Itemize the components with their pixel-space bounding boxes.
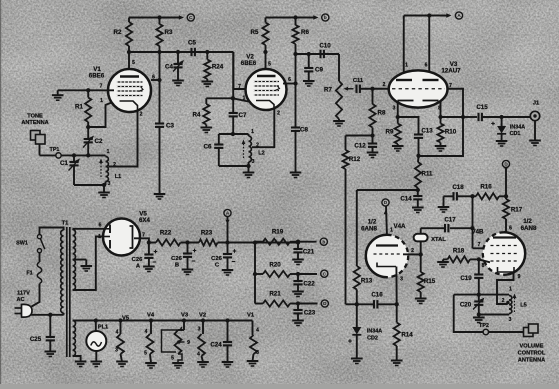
wire fuse to plug	[32, 284, 40, 307]
wire R8 to R12	[346, 135, 373, 137]
wire V3 pin6	[428, 16, 430, 81]
wire to terminal d	[298, 303, 318, 305]
wire antenna to TP1	[39, 144, 41, 155]
svg-text:3: 3	[198, 327, 201, 333]
resistor R9	[395, 124, 401, 145]
wire V1 pin6 bus	[151, 79, 160, 81]
heater bus y320	[73, 320, 253, 322]
capacitor C21	[297, 242, 299, 249]
capacitor C25	[49, 315, 51, 337]
ground R9	[392, 145, 404, 147]
svg-text:3: 3	[393, 106, 396, 112]
svg-text:C22: C22	[303, 281, 315, 288]
ground CD2	[351, 358, 363, 360]
terminal d	[321, 300, 328, 307]
capacitor C9	[308, 54, 310, 68]
terminal C arrowhead	[179, 15, 184, 19]
wire L1 bottom	[74, 184, 104, 186]
capacitor C11	[355, 85, 357, 93]
terminal D mid	[382, 199, 389, 206]
svg-text:R22: R22	[160, 230, 172, 237]
wire HV bottom to V5 pin1	[73, 237, 104, 291]
ground C3	[154, 193, 166, 195]
svg-text:1: 1	[100, 98, 103, 104]
svg-text:6: 6	[288, 77, 291, 83]
tube V5 6X4	[103, 219, 140, 256]
svg-text:C20: C20	[460, 302, 472, 309]
terminal c	[321, 270, 328, 277]
svg-text:C3: C3	[166, 123, 174, 130]
wire C17 line	[421, 227, 445, 229]
svg-text:1: 1	[107, 149, 110, 155]
svg-text:ANTENNA: ANTENNA	[21, 120, 48, 126]
resistor R11	[417, 156, 420, 162]
svg-text:R19: R19	[272, 229, 284, 236]
wire pin3 to C13	[398, 117, 419, 135]
svg-text:R7: R7	[324, 87, 332, 94]
svg-text:C7: C7	[239, 112, 247, 119]
ground L2	[248, 166, 250, 173]
svg-text:1/2: 1/2	[523, 218, 532, 225]
resistor R14	[396, 304, 398, 322]
capacitor C22	[297, 274, 299, 281]
svg-text:b: b	[322, 239, 325, 244]
capacitor C24	[227, 321, 229, 343]
svg-text:C18: C18	[452, 184, 464, 191]
svg-text:3: 3	[400, 277, 403, 283]
wire to TP2	[454, 295, 483, 332]
wire L5 bottom	[479, 314, 509, 316]
capacitor C13	[414, 133, 423, 135]
ground heater V5	[116, 361, 128, 363]
svg-text:L5: L5	[520, 303, 527, 309]
svg-text:6: 6	[152, 75, 155, 81]
svg-text:7: 7	[238, 84, 241, 90]
ground V1 grid	[57, 90, 59, 95]
resistor R10	[437, 124, 443, 143]
wire HV center tap	[73, 259, 87, 261]
svg-text:R24: R24	[212, 64, 224, 71]
svg-text:IN34A: IN34A	[367, 329, 382, 335]
svg-text:6: 6	[425, 63, 428, 69]
svg-text:6AN8: 6AN8	[361, 226, 377, 233]
wire V4A pin2 to crystal node	[403, 253, 421, 255]
wire volume pickup y294	[454, 294, 509, 296]
wire V3 pin3	[397, 101, 399, 117]
wire HV top to V5 pin6	[72, 228, 74, 231]
svg-text:3: 3	[115, 348, 118, 354]
volume control antenna connector	[524, 328, 534, 337]
svg-text:R1: R1	[75, 104, 83, 111]
svg-text:R10: R10	[445, 129, 457, 136]
terminal D right	[502, 160, 509, 167]
svg-text:7: 7	[100, 84, 103, 90]
switch SW1	[37, 235, 41, 239]
svg-text:1: 1	[509, 287, 512, 293]
svg-text:V4: V4	[147, 313, 155, 319]
svg-text:TONE: TONE	[27, 114, 43, 120]
resistor R12	[345, 136, 347, 151]
capacitor C5	[190, 48, 192, 56]
resistor R15	[420, 255, 422, 273]
wire to V2 pin7	[233, 52, 245, 89]
svg-text:C11: C11	[353, 78, 364, 84]
diode IN34A CD2	[356, 304, 358, 327]
terminal A top	[455, 12, 462, 19]
svg-text:L1: L1	[115, 174, 122, 180]
ground CD1	[496, 140, 508, 142]
svg-text:5: 5	[132, 60, 135, 66]
wire V1 pin7	[58, 89, 114, 91]
capacitor C26A electrolytic	[148, 243, 150, 255]
svg-text:V4B: V4B	[471, 229, 484, 236]
capacitor C26C electrolytic	[227, 243, 229, 255]
svg-text:5: 5	[268, 62, 271, 68]
ground R14	[391, 360, 403, 362]
ground R24	[202, 81, 214, 83]
svg-text:R5: R5	[251, 29, 259, 36]
wire heater winding bottom	[73, 356, 81, 362]
ground center tap	[81, 265, 93, 267]
svg-text:C13: C13	[421, 128, 433, 135]
svg-text:4: 4	[180, 327, 183, 333]
svg-text:4: 4	[116, 330, 119, 336]
svg-text:1: 1	[251, 129, 254, 135]
R7 wiper arrow	[347, 88, 354, 90]
capacitor C15	[477, 113, 479, 121]
svg-text:VOLUME: VOLUME	[520, 344, 544, 350]
svg-text:R11: R11	[421, 171, 433, 178]
wire to terminal c	[298, 273, 317, 275]
wire supply column x255	[254, 243, 256, 304]
wire terminal D to V4A pin1	[386, 206, 387, 245]
capacitor C8	[291, 126, 300, 128]
tube V2 6BE6	[246, 69, 287, 110]
tube V1 6BE6	[108, 69, 151, 112]
svg-text:9: 9	[518, 274, 521, 280]
ground heater winding	[75, 361, 87, 363]
wire V2 grid3 vertical	[232, 52, 234, 113]
svg-text:R8: R8	[378, 110, 386, 117]
svg-text:7: 7	[142, 233, 145, 239]
test point TP2	[483, 329, 488, 334]
svg-text:6X4: 6X4	[139, 217, 151, 224]
resistor R6	[292, 25, 298, 44]
wire V3 pin8	[440, 101, 442, 117]
tube V4B half 6AN8	[483, 232, 525, 274]
capacitor C2 trimmer	[87, 127, 89, 139]
crystal XTAL	[414, 234, 428, 242]
capacitor C17	[444, 224, 446, 232]
svg-text:6: 6	[509, 226, 512, 232]
svg-text:5: 5	[144, 351, 147, 357]
svg-text:R15: R15	[424, 278, 436, 285]
svg-text:2: 2	[411, 248, 414, 254]
svg-text:3: 3	[256, 350, 259, 356]
wire primary top to switch	[40, 228, 64, 235]
svg-text:C1: C1	[60, 160, 68, 167]
svg-text:4: 4	[197, 352, 200, 358]
ground C12	[367, 152, 379, 154]
transformer T1 heater secondary	[73, 321, 76, 357]
svg-text:7: 7	[478, 242, 481, 248]
svg-text:C8: C8	[300, 127, 308, 134]
svg-text:AC: AC	[16, 297, 24, 303]
terminal A mid with arrow	[224, 209, 231, 216]
resistor R4	[205, 98, 207, 104]
svg-text:C19: C19	[460, 275, 472, 282]
svg-text:R17: R17	[511, 207, 523, 214]
svg-text:C12: C12	[354, 143, 366, 150]
svg-text:C24: C24	[210, 342, 222, 349]
svg-text:1: 1	[243, 96, 246, 102]
svg-text:R3: R3	[165, 29, 173, 36]
svg-text:C6: C6	[204, 144, 212, 151]
svg-text:6AN8: 6AN8	[521, 225, 537, 232]
resistor R3	[156, 24, 162, 46]
svg-text:R4: R4	[193, 112, 201, 119]
ground R4	[201, 127, 213, 129]
resistor R17	[505, 196, 507, 199]
svg-text:C17: C17	[444, 217, 456, 224]
resistor R23	[199, 239, 218, 245]
capacitor C10	[319, 50, 321, 58]
svg-text:1: 1	[405, 63, 408, 69]
wire plate supply V1 to terminal C	[129, 17, 181, 19]
svg-text:L2: L2	[258, 151, 265, 157]
svg-text:ANTENNA: ANTENNA	[518, 358, 545, 364]
resistor R22	[156, 239, 181, 245]
transformer T1 primary winding	[61, 230, 64, 313]
capacitor C20 trimmer	[478, 295, 480, 302]
svg-text:V5: V5	[122, 316, 130, 322]
capacitor C1 variable	[73, 155, 75, 162]
svg-text:6: 6	[99, 223, 102, 229]
resistor R20	[253, 272, 257, 276]
svg-text:C10: C10	[319, 43, 331, 50]
ground heater V2	[197, 361, 209, 363]
ground C18	[443, 196, 445, 207]
svg-text:6BE6: 6BE6	[89, 73, 105, 80]
svg-text:C4: C4	[165, 64, 173, 71]
terminal b lower	[320, 238, 327, 245]
svg-text:b: b	[324, 15, 327, 20]
wire R12 long drop	[345, 169, 347, 304]
svg-text:F1: F1	[26, 271, 32, 277]
inductor L2 tuned	[249, 136, 252, 162]
ground J1	[529, 140, 541, 142]
svg-text:CD2: CD2	[367, 336, 378, 342]
ground PL1	[91, 361, 103, 363]
ground R7	[333, 120, 345, 122]
resistor R8	[369, 104, 375, 128]
transformer T1 HV secondary	[73, 230, 76, 290]
wire grid line y52	[129, 51, 233, 53]
svg-text:R2: R2	[114, 29, 122, 36]
svg-text:C5: C5	[188, 40, 196, 47]
wire plug to T1 primary bottom	[31, 314, 64, 316]
svg-text:5: 5	[171, 356, 174, 362]
svg-text:B: B	[175, 263, 179, 269]
svg-text:C26: C26	[211, 256, 222, 262]
svg-text:SW1: SW1	[16, 241, 28, 247]
svg-text:C15: C15	[476, 104, 488, 111]
svg-text:V3: V3	[181, 313, 189, 319]
svg-text:2: 2	[383, 82, 386, 88]
fuse F1	[39, 253, 41, 262]
wire L2 box bottom	[219, 165, 249, 167]
svg-text:3: 3	[252, 159, 255, 165]
capacitor C16	[357, 303, 374, 305]
ground heater V1	[247, 360, 259, 362]
wire y54 to R7	[296, 53, 340, 55]
svg-text:R21: R21	[269, 291, 281, 298]
svg-text:R13: R13	[361, 278, 373, 285]
wire V3 pin7	[419, 89, 464, 156]
svg-text:1: 1	[98, 234, 101, 240]
resistor R1	[85, 98, 91, 123]
svg-text:XTAL: XTAL	[431, 237, 446, 243]
capacitor C14	[417, 190, 419, 196]
svg-text:2: 2	[140, 112, 143, 118]
wire V2 pin6	[283, 83, 296, 85]
svg-text:PL1: PL1	[98, 325, 108, 331]
ground R10	[435, 145, 447, 147]
svg-text:V4A: V4A	[393, 223, 406, 230]
wire long drop from R12	[346, 303, 357, 305]
wire antenna input y155	[40, 154, 106, 156]
capacitor C18	[444, 195, 454, 197]
wire C18 node to V4B pin7	[472, 196, 474, 248]
svg-text:R16: R16	[480, 184, 492, 191]
svg-text:T1: T1	[62, 221, 70, 227]
svg-text:R23: R23	[201, 230, 213, 237]
svg-text:TP1: TP1	[50, 147, 60, 153]
inductor L5 tuned	[509, 296, 512, 314]
ground heater V4	[145, 362, 157, 364]
wire TP2 to antenna	[489, 331, 527, 333]
svg-text:12AU7: 12AU7	[441, 68, 461, 75]
ground C8	[290, 172, 302, 174]
wire L1 tap to V1 pin2	[108, 110, 137, 166]
svg-text:C26: C26	[171, 256, 182, 262]
svg-text:C23: C23	[304, 310, 316, 317]
svg-text:V2: V2	[199, 313, 206, 319]
svg-text:4: 4	[256, 328, 259, 334]
svg-text:4: 4	[145, 329, 148, 335]
wire R11 to V4A grid feed	[357, 189, 418, 191]
ground C24	[222, 361, 234, 363]
tube V3 12AU7	[389, 70, 448, 107]
resistor R16	[476, 193, 499, 199]
svg-text:V1: V1	[247, 313, 255, 319]
wire V4A pin3	[395, 267, 397, 305]
ground R18	[443, 258, 448, 260]
tube V4A half 6AN8	[366, 235, 408, 277]
capacitor C12	[372, 136, 374, 144]
ground R15	[415, 298, 427, 300]
wire to terminal b lower	[298, 241, 317, 243]
capacitor C23	[297, 304, 299, 311]
B+ filter bus y242	[149, 242, 156, 244]
diode IN34A CD1	[501, 117, 503, 126]
wire V3 plates to terminal A	[404, 15, 449, 17]
svg-text:117V: 117V	[17, 291, 30, 297]
resistor R24	[204, 60, 210, 80]
svg-text:J1: J1	[533, 101, 540, 107]
svg-text:2: 2	[277, 111, 280, 117]
svg-text:8: 8	[482, 263, 485, 269]
wire terminal D to R16 R17 node	[505, 168, 507, 197]
ground C20	[478, 315, 480, 318]
test point TP1	[56, 153, 61, 158]
svg-text:3: 3	[108, 181, 111, 187]
svg-text:9: 9	[187, 340, 190, 346]
svg-text:R9: R9	[386, 129, 394, 136]
svg-text:C16: C16	[371, 292, 383, 299]
svg-text:1/2: 1/2	[368, 219, 377, 226]
svg-text:R14: R14	[401, 332, 413, 339]
svg-text:C14: C14	[400, 196, 412, 203]
ground C26C	[222, 269, 234, 271]
ground C26B	[182, 269, 194, 271]
ground C4	[172, 80, 184, 82]
wire V4B pin9 to L5 tap	[497, 273, 514, 304]
wire to V3 pin2	[360, 88, 389, 90]
terminal C	[187, 14, 194, 21]
capacitor C26B electrolytic	[187, 243, 189, 254]
wire drop to R13	[356, 190, 358, 266]
svg-text:C9: C9	[315, 67, 323, 74]
resistor R5	[262, 23, 268, 46]
wire V2 pin1 and R4	[206, 97, 233, 99]
ground L1	[103, 185, 105, 193]
ground heater V3	[172, 362, 184, 364]
resistor R19	[263, 239, 290, 245]
svg-text:CD1: CD1	[510, 131, 521, 137]
svg-text:C2: C2	[95, 138, 103, 145]
transformer T1 core	[66, 227, 68, 357]
resistor R18	[448, 256, 471, 262]
svg-text:C25: C25	[30, 336, 42, 343]
resistor R21	[263, 300, 290, 306]
ground C25	[45, 351, 57, 353]
wire detector output y117	[463, 116, 477, 118]
ground C9	[303, 80, 315, 82]
capacitor C4	[177, 52, 179, 64]
terminal b	[322, 14, 329, 21]
resistor R13	[354, 266, 360, 290]
wire L2 box top	[219, 133, 249, 135]
svg-text:R18: R18	[453, 248, 465, 255]
wire V1 pin1	[88, 103, 111, 128]
ground C14	[412, 207, 424, 209]
terminal A arrowhead	[446, 13, 451, 17]
capacitor C7	[229, 112, 238, 114]
capacitor C6	[218, 134, 220, 145]
svg-text:C21: C21	[303, 249, 315, 256]
svg-text:TP2: TP2	[479, 323, 489, 329]
svg-text:C26: C26	[132, 257, 143, 263]
svg-text:R20: R20	[269, 262, 281, 269]
resistor R2	[126, 22, 132, 46]
capacitor C3	[155, 122, 164, 124]
wire plate supply to terminal b	[266, 17, 317, 19]
terminal b arrowhead	[313, 15, 318, 19]
wire L2 tap to V2 pin2	[252, 109, 274, 148]
wire J1 to ground	[534, 121, 536, 141]
svg-text:CONTROL: CONTROL	[518, 351, 546, 357]
